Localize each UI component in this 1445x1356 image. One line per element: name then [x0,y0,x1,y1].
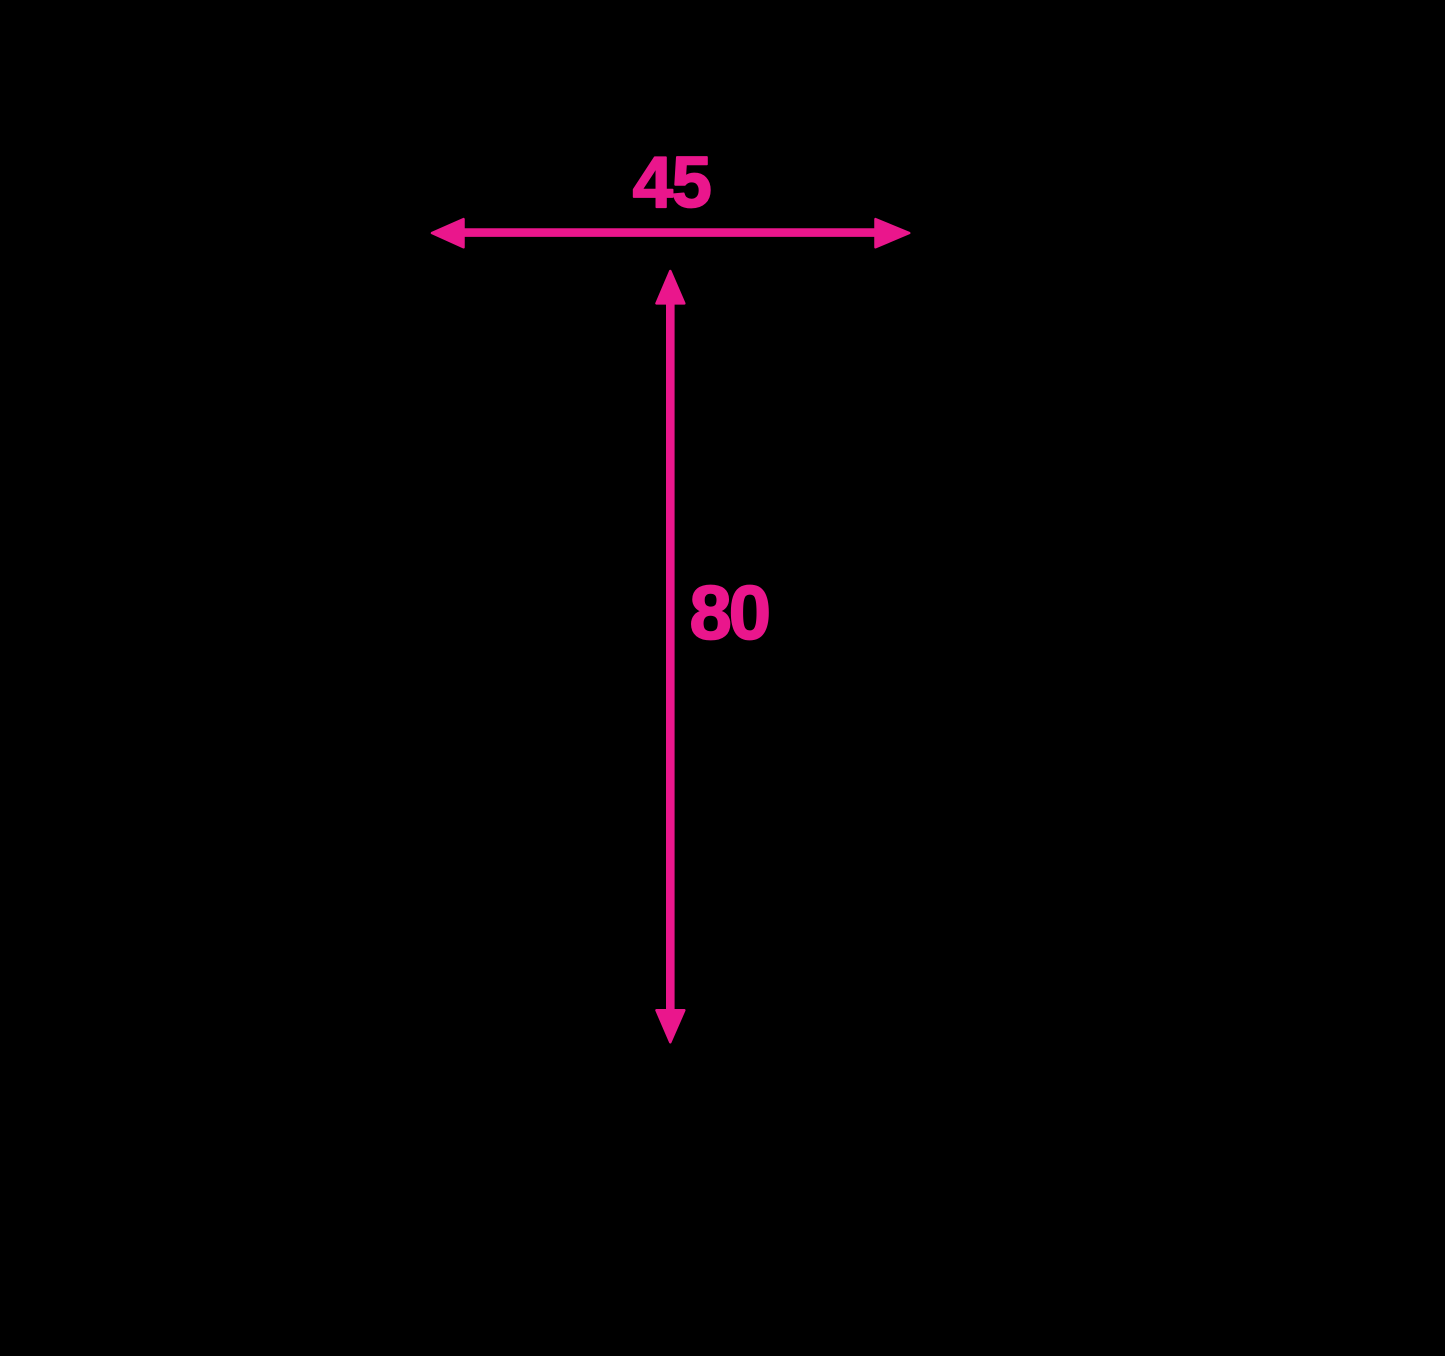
node: right arrowhead of 45 dimension [876,219,910,247]
node: left arrowhead of 45 dimension [432,219,464,247]
svg-text:45: 45 [633,142,711,223]
svg-text:80: 80 [690,571,769,656]
node: bottom arrowhead of 80 dimension [657,1010,685,1042]
wire: horizontal dimension shaft (45) [458,228,882,237]
wire: vertical dimension shaft (80) [666,300,675,1012]
node: top arrowhead of 80 dimension [657,271,685,303]
